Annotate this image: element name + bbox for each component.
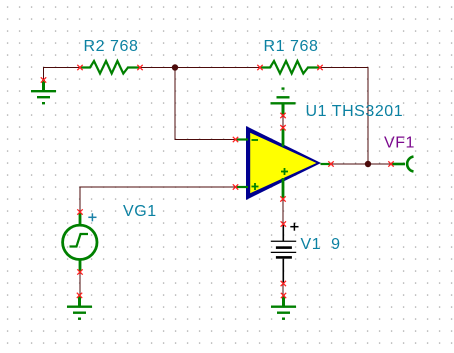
op-amp U1 triangle yellow body xyxy=(250,133,316,193)
voltage probe VF1 xyxy=(392,157,414,172)
pin marker x R2 right xyxy=(137,65,142,70)
svg-text:VF1: VF1 xyxy=(384,135,415,152)
pin marker x op-amp inverting input xyxy=(233,137,238,142)
pin marker x R1 right xyxy=(317,65,322,70)
node B junction dot xyxy=(365,161,371,167)
label VG1 xyxy=(123,203,157,220)
wire from ground G1 to R2 left pin xyxy=(44,68,81,81)
pin marker x ground G3 xyxy=(280,113,285,118)
wire VG1 minus pin to ground G2 xyxy=(79,272,81,295)
ground G1 top-left xyxy=(31,80,56,103)
op-amp plus input label xyxy=(252,183,259,190)
pin marker x ground G4 xyxy=(281,293,286,298)
op-amp supply plus label xyxy=(281,168,288,175)
pin marker x R1 left xyxy=(257,65,262,70)
label U1 THS3201 xyxy=(306,103,404,120)
resistor R1 xyxy=(261,61,319,74)
pin marker x VG1 minus xyxy=(77,269,82,274)
pin marker x op-amp non-inverting input xyxy=(233,184,238,189)
label VF1 xyxy=(384,135,415,152)
label R1 value xyxy=(264,38,319,55)
svg-text:V1 9: V1 9 xyxy=(301,236,341,253)
svg-text:U1 THS3201: U1 THS3201 xyxy=(306,103,404,120)
battery V1 plus sign xyxy=(290,223,298,231)
resistor R2 xyxy=(81,61,139,74)
svg-text:R1 768: R1 768 xyxy=(264,38,319,55)
ground G4 below battery V1 xyxy=(271,296,296,319)
wire from R2 right pin to R1 left pin xyxy=(140,67,260,69)
pin marker x op-amp negative supply xyxy=(280,196,285,201)
pin marker x VG1 plus xyxy=(77,209,82,214)
op-amp positive supply pin stub xyxy=(282,129,285,147)
label R2 value xyxy=(84,38,139,55)
pin marker x ground G1 xyxy=(41,77,46,82)
op-amp output pin stub xyxy=(321,163,331,165)
pin marker x battery minus xyxy=(281,281,286,286)
wire battery V1 minus to ground G4 xyxy=(282,284,284,296)
ground G3 above op-amp (inverted) xyxy=(271,89,296,116)
pin marker x op-amp output xyxy=(328,161,333,166)
wire feedback from node A down to op-amp inverting input xyxy=(175,68,236,140)
wire op-amp output to probe VF1 xyxy=(331,163,391,165)
battery V1 xyxy=(271,224,296,284)
op-amp negative supply pin stub xyxy=(282,178,285,199)
wire from R1 right pin to output node B xyxy=(320,68,368,165)
svg-text:VG1: VG1 xyxy=(123,203,157,220)
pin marker x R2 left xyxy=(77,65,82,70)
op-amp non-inverting input pin stub xyxy=(237,186,249,188)
op-amp U1 triangle outline xyxy=(246,126,321,200)
op-amp inverting input pin stub xyxy=(237,138,249,140)
pin marker x probe VF1 xyxy=(388,161,393,166)
pin marker x op-amp positive supply xyxy=(280,125,285,130)
pin marker x ground G2 xyxy=(77,293,82,298)
pin marker x battery plus xyxy=(281,221,286,226)
wire op-amp negative supply pin to battery V1 plus xyxy=(282,199,284,224)
svg-text:R2 768: R2 768 xyxy=(84,38,139,55)
node A junction dot xyxy=(172,64,178,70)
op-amp minus input label xyxy=(252,139,259,141)
wire from VG1 plus pin to op-amp non-inverting input xyxy=(80,187,236,212)
wire ground G3 to op-amp positive supply pin xyxy=(282,116,284,128)
VG1 polarity plus sign xyxy=(88,213,96,221)
voltage generator VG1 xyxy=(63,213,97,272)
label V1 value 9 xyxy=(301,236,341,253)
ground G2 below VG1 xyxy=(67,295,92,318)
